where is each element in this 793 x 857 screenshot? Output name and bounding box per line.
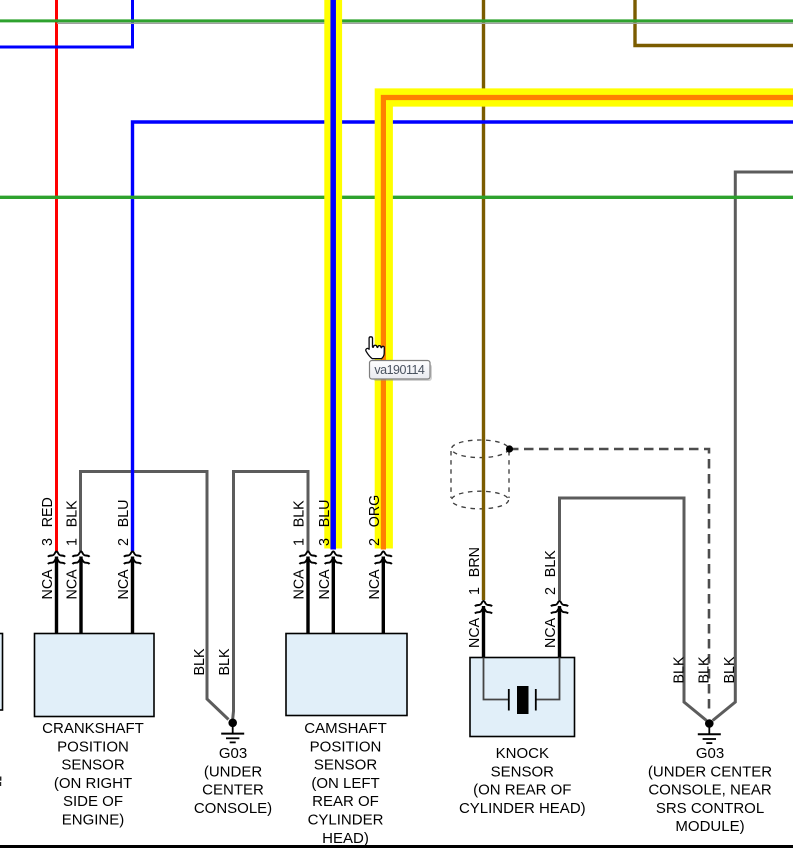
svg-text:BLK: BLK	[192, 648, 208, 675]
svg-text:BLK: BLK	[697, 656, 713, 683]
svg-text:BLU: BLU	[317, 499, 333, 527]
svg-text:NCA: NCA	[467, 617, 483, 648]
svg-text:CENTER: CENTER	[202, 782, 264, 799]
svg-text:2: 2	[116, 538, 132, 546]
svg-text:NCA: NCA	[116, 569, 132, 600]
svg-text:BLK: BLK	[543, 550, 559, 577]
svg-text:NCA: NCA	[543, 617, 559, 648]
svg-text:2: 2	[367, 538, 383, 546]
svg-text:3: 3	[317, 538, 333, 546]
svg-text:RED: RED	[40, 497, 56, 527]
svg-text:BLK: BLK	[217, 648, 233, 675]
svg-text:NCA: NCA	[317, 569, 333, 600]
svg-text:G03: G03	[696, 745, 724, 762]
svg-text:ENGINE): ENGINE)	[62, 812, 125, 829]
svg-text:va190114: va190114	[374, 363, 425, 377]
svg-text:REAR OF: REAR OF	[312, 793, 379, 810]
svg-text:SRS CONTROL: SRS CONTROL	[656, 800, 764, 817]
svg-text:(UNDER: (UNDER	[204, 763, 262, 780]
svg-text:POSITION: POSITION	[57, 738, 129, 755]
svg-text:ORG: ORG	[367, 495, 383, 528]
svg-text:2: 2	[543, 587, 559, 595]
svg-text:BRN: BRN	[467, 547, 483, 577]
svg-text:NCA: NCA	[292, 569, 308, 600]
svg-text:MODULE): MODULE)	[675, 818, 744, 835]
svg-text:CYLINDER: CYLINDER	[308, 812, 384, 829]
svg-text:3: 3	[40, 538, 56, 546]
svg-text:BLK: BLK	[292, 500, 308, 527]
svg-text:CRANKSHAFT: CRANKSHAFT	[42, 720, 144, 737]
svg-text:CAMSHAFT: CAMSHAFT	[304, 720, 387, 737]
svg-text:G03: G03	[219, 745, 247, 762]
svg-text:NCA: NCA	[40, 569, 56, 600]
svg-text:SENSOR: SENSOR	[314, 757, 378, 774]
svg-text:NCA: NCA	[367, 569, 383, 600]
svg-text:CONSOLE, NEAR: CONSOLE, NEAR	[648, 782, 772, 799]
svg-text:BLK: BLK	[722, 656, 738, 683]
svg-text:(ON RIGHT: (ON RIGHT	[54, 775, 132, 792]
svg-text:NCA: NCA	[65, 569, 81, 600]
svg-text:SENSOR: SENSOR	[61, 757, 125, 774]
svg-text:CYLINDER HEAD): CYLINDER HEAD)	[459, 800, 586, 817]
svg-text:1: 1	[65, 538, 81, 546]
svg-text:(ON REAR OF: (ON REAR OF	[473, 782, 571, 799]
svg-text:BLU: BLU	[116, 499, 132, 527]
svg-text:BLK: BLK	[65, 500, 81, 527]
svg-text:KNOCK: KNOCK	[496, 745, 549, 762]
svg-text:1: 1	[292, 538, 308, 546]
svg-text:SIDE OF: SIDE OF	[63, 793, 123, 810]
svg-text:BLK: BLK	[672, 656, 688, 683]
svg-text:POSITION: POSITION	[310, 738, 382, 755]
svg-text:HEAD): HEAD)	[322, 830, 369, 847]
svg-text:CONSOLE): CONSOLE)	[194, 800, 272, 817]
svg-text:(ON LEFT: (ON LEFT	[311, 775, 379, 792]
svg-text:1: 1	[467, 587, 483, 595]
svg-text:SENSOR: SENSOR	[491, 763, 555, 780]
svg-text:(UNDER CENTER: (UNDER CENTER	[648, 763, 772, 780]
